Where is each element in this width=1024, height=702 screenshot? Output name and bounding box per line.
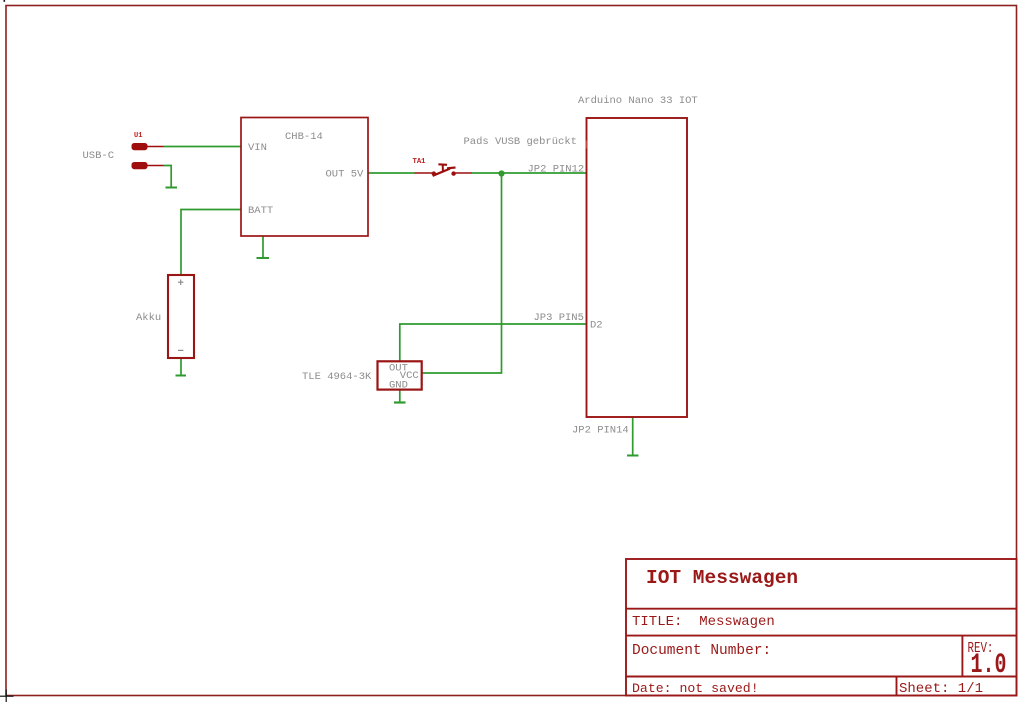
- svg-text:Pads VUSB gebrückt: Pads VUSB gebrückt: [464, 136, 577, 148]
- battery plus terminal: [178, 280, 183, 286]
- ground (TLE): [394, 401, 406, 403]
- battery Akku box: [168, 275, 194, 358]
- svg-text:VIN: VIN: [248, 142, 267, 154]
- svg-text:TLE 4964-3K: TLE 4964-3K: [302, 371, 372, 383]
- svg-text:JP2 PIN14: JP2 PIN14: [572, 425, 629, 437]
- svg-text:USB-C: USB-C: [83, 150, 115, 162]
- wire TLE GND stub: [399, 390, 401, 402]
- ground (USB): [166, 187, 178, 189]
- svg-text:Arduino Nano 33 IOT: Arduino Nano 33 IOT: [578, 95, 698, 107]
- svg-text:D2: D2: [590, 320, 603, 332]
- svg-text:CHB-14: CHB-14: [285, 131, 323, 143]
- svg-text:JP3 PIN5: JP3 PIN5: [534, 312, 584, 324]
- svg-text:JP2 PIN12: JP2 PIN12: [528, 164, 585, 176]
- wire 5V net OUT to switch: [368, 172, 415, 174]
- junction node 5V: [498, 170, 504, 176]
- wire Arduino JP2 PIN14 to ground: [632, 417, 634, 455]
- wire 5V net switch to Arduino JP2 PIN12: [472, 172, 586, 174]
- module Arduino Nano 33 IOT box: [587, 118, 688, 417]
- svg-text:1.0: 1.0: [971, 650, 1007, 681]
- svg-text:Akku: Akku: [136, 312, 161, 324]
- svg-text:GND: GND: [389, 380, 408, 392]
- ground (Arduino): [627, 455, 639, 457]
- origin mark top-left: [4, 0, 6, 2]
- svg-text:Document Number:: Document Number:: [632, 643, 771, 659]
- ground (CHB-14): [257, 257, 270, 259]
- svg-text:U1: U1: [134, 132, 142, 140]
- wire CHB-14 GND stub: [262, 236, 264, 257]
- pin mark on Arduino edge: [586, 141, 588, 149]
- svg-text:BATT: BATT: [248, 205, 273, 217]
- svg-text:TA1: TA1: [413, 158, 427, 166]
- svg-text:TITLE: Messwagen: TITLE: Messwagen: [632, 614, 775, 630]
- ground (Akku): [176, 375, 187, 377]
- wire USB shield to ground: [164, 166, 172, 187]
- svg-text:Sheet: 1/1: Sheet: 1/1: [899, 681, 983, 697]
- svg-text:OUT 5V: OUT 5V: [326, 169, 365, 181]
- switch TA1: [415, 164, 473, 176]
- title block outline: [626, 559, 1017, 696]
- wire Akku minus to ground: [180, 358, 182, 375]
- wire VIN net: [164, 146, 242, 148]
- wire TLE OUT to Arduino D2: [400, 324, 586, 361]
- wire VCC riser to TLE: [422, 173, 502, 373]
- origin cross bottom-left: [0, 690, 14, 702]
- svg-text:IOT Messwagen: IOT Messwagen: [646, 567, 798, 589]
- battery minus terminal: [178, 349, 183, 351]
- IC CHB-14 box: [241, 118, 368, 237]
- wire BATT net: [181, 210, 241, 276]
- connector U1 pad 1 pin stub: [147, 146, 164, 148]
- sensor TLE 4964-3K box: [378, 361, 422, 389]
- connector U1 pad 2: [132, 162, 148, 169]
- svg-text:Date: not saved!: Date: not saved!: [632, 681, 759, 696]
- connector U1 pad 2 pin stub: [147, 165, 164, 167]
- connector U1 pad 1: [132, 143, 148, 150]
